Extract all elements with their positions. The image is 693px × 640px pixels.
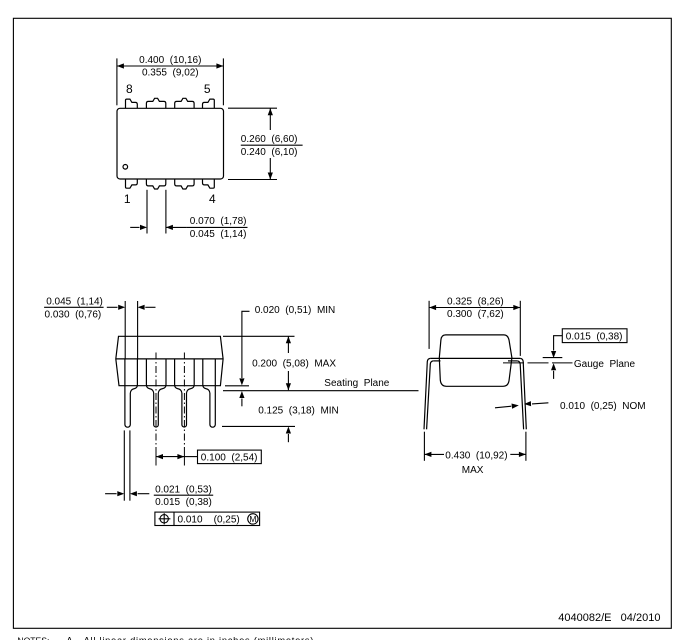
right lead inner line xyxy=(517,361,523,429)
svg-text:4: 4 xyxy=(209,192,216,206)
body parting line xyxy=(116,358,223,360)
dimension 0.325/0.300 (end view top) xyxy=(429,301,520,356)
pin 4 tab xyxy=(203,179,215,188)
svg-text:0.240 (6,10): 0.240 (6,10) xyxy=(241,147,298,158)
pin 1 index circle xyxy=(123,165,128,170)
svg-text:0.200 (5,08) MAX: 0.200 (5,08) MAX xyxy=(252,358,336,369)
svg-text:A.: A. xyxy=(66,635,75,640)
svg-text:0.021 (0,53): 0.021 (0,53) xyxy=(155,484,212,495)
lead bottom edge (right segment) xyxy=(508,360,517,362)
dimension 0.260/0.240 (right of top view) xyxy=(228,108,303,179)
svg-text:0.045 (1,14): 0.045 (1,14) xyxy=(190,229,247,240)
right lead outer line xyxy=(520,358,526,429)
feature control frame: true position 0.010 (0,25) M xyxy=(155,512,260,525)
svg-text:0.020 (0,51) MIN: 0.020 (0,51) MIN xyxy=(255,305,336,316)
svg-text:0.100 (2,54): 0.100 (2,54) xyxy=(201,452,258,463)
svg-text:5: 5 xyxy=(204,82,211,96)
svg-text:0.260 (6,60): 0.260 (6,60) xyxy=(241,134,298,145)
pin 8 tab xyxy=(126,99,138,108)
svg-text:Seating Plane: Seating Plane xyxy=(324,378,389,389)
pin 1 tab xyxy=(126,179,138,188)
lead 3 centerline xyxy=(183,353,185,450)
svg-text:1: 1 xyxy=(124,192,131,206)
package body (top view) xyxy=(117,108,224,179)
seating plane line xyxy=(223,390,419,392)
lead 1 (side view) xyxy=(125,359,137,427)
pin 6 tab xyxy=(175,98,194,108)
lead 3 (side view) xyxy=(175,359,195,427)
lead top surface line xyxy=(430,357,520,359)
dimension 0.020 MIN leader xyxy=(225,311,250,406)
svg-text:0.010 (0,25): 0.010 (0,25) xyxy=(178,514,240,525)
pin 3 tab xyxy=(175,179,194,189)
svg-text:0.015 (0,38): 0.015 (0,38) xyxy=(155,497,212,508)
svg-text:NOTES:: NOTES: xyxy=(17,635,49,640)
svg-text:0.430 (10,92): 0.430 (10,92) xyxy=(445,450,507,461)
pin number labels xyxy=(124,82,216,206)
svg-text:All linear dimensions are in i: All linear dimensions are in inches (mil… xyxy=(84,635,318,640)
dimension 0.045/0.030 (lead shoulder width) xyxy=(44,301,155,359)
lead 2 centerline xyxy=(155,353,157,450)
svg-text:0.010 (0,25) NOM: 0.010 (0,25) NOM xyxy=(560,401,646,412)
package body (side view) xyxy=(116,336,223,385)
svg-text:0.015 (0,38): 0.015 (0,38) xyxy=(566,331,623,342)
dimension 0.200 MAX xyxy=(223,336,295,390)
svg-text:4040082/E 04/2010: 4040082/E 04/2010 xyxy=(558,612,660,624)
dimension 0.015 boxed with leader xyxy=(543,329,627,379)
svg-text:M: M xyxy=(249,514,256,524)
svg-text:0.030 (0,76): 0.030 (0,76) xyxy=(45,310,102,321)
svg-text:0.070 (1,78): 0.070 (1,78) xyxy=(190,216,247,227)
pin 7 tab xyxy=(146,98,165,108)
dimension 0.125 MIN xyxy=(222,426,295,442)
svg-text:0.355 (9,02): 0.355 (9,02) xyxy=(142,68,199,79)
pin 2 tab xyxy=(146,179,165,189)
gauge plane dash line xyxy=(503,362,573,364)
svg-text:0.125 (3,18) MIN: 0.125 (3,18) MIN xyxy=(258,406,339,417)
dimension 0.100 pitch with box xyxy=(156,450,261,464)
lead bottom edge (left segment) xyxy=(433,360,440,362)
svg-text:Gauge Plane: Gauge Plane xyxy=(574,359,636,370)
svg-text:0.325 (8,26): 0.325 (8,26) xyxy=(447,296,504,307)
package body (end view) xyxy=(439,335,512,386)
left lead inner line xyxy=(427,361,434,429)
svg-text:0.400 (10,16): 0.400 (10,16) xyxy=(139,55,201,66)
pin 5 tab xyxy=(203,99,215,108)
dimension 0.070/0.045 (below top view) xyxy=(130,190,247,234)
svg-text:0.300 (7,62): 0.300 (7,62) xyxy=(447,309,504,320)
lead 2 (side view) xyxy=(146,359,166,427)
left lead outer line xyxy=(424,358,430,429)
svg-text:MAX: MAX xyxy=(462,465,484,476)
dimension 0.430 MAX (end view bottom) xyxy=(424,432,526,461)
lead 4 (side view) xyxy=(203,359,216,427)
M circle modifier xyxy=(248,514,258,524)
dimension 0.010 NOM lead thickness xyxy=(495,403,548,408)
dimension 0.400/0.355 (top) xyxy=(117,58,223,105)
position symbol xyxy=(160,515,168,523)
svg-text:8: 8 xyxy=(126,82,133,96)
svg-text:0.045 (1,14): 0.045 (1,14) xyxy=(46,297,103,308)
dimension 0.021/0.015 (lead tip width) xyxy=(105,430,213,500)
